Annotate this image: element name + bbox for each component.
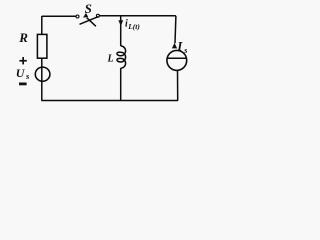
svg-text:s: s [183, 46, 187, 55]
svg-text:U: U [16, 66, 26, 80]
svg-text:L(t): L(t) [127, 22, 140, 31]
svg-text:s: s [25, 71, 30, 81]
svg-text:L: L [107, 54, 114, 65]
svg-text:I: I [176, 38, 183, 53]
svg-text:R: R [18, 30, 28, 45]
svg-text:S: S [85, 1, 92, 16]
